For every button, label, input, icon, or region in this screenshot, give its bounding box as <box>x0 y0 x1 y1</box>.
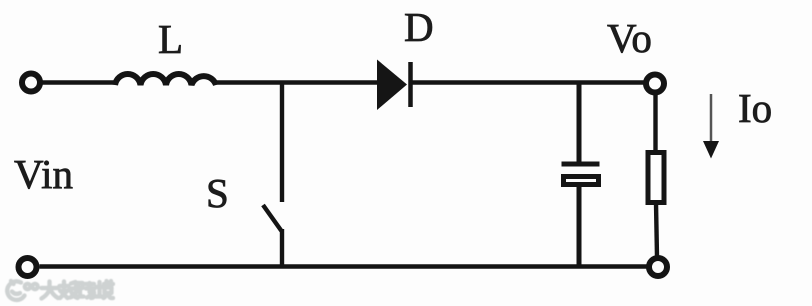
svg-text:Vin: Vin <box>14 151 73 197</box>
svg-text:S: S <box>206 170 229 216</box>
svg-text:Io: Io <box>738 85 772 131</box>
svg-text:D: D <box>404 4 434 50</box>
svg-text:Vo: Vo <box>607 15 652 61</box>
svg-text:L: L <box>158 16 183 62</box>
